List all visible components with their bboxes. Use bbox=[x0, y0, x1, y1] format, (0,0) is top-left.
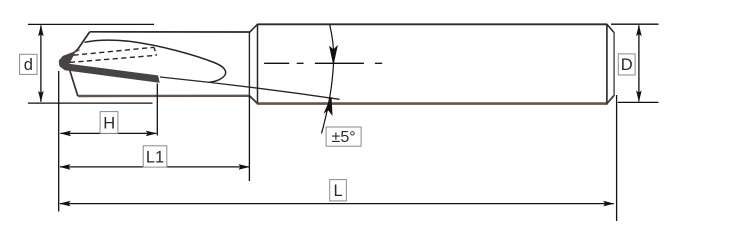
svg-text:L1: L1 bbox=[146, 148, 164, 166]
label ±5° bbox=[326, 127, 361, 146]
dimension L1 line bbox=[59, 164, 250, 170]
H right extension line bbox=[156, 84, 158, 136]
shank left vertical (neck circle) bbox=[257, 24, 259, 105]
angle arrow at center line bbox=[330, 46, 338, 64]
angle arrow at flute line bbox=[324, 97, 332, 115]
shank right end face bbox=[613, 32, 615, 96]
hidden edge dashed wedge upper bbox=[74, 47, 155, 55]
dimension D extension bottom bbox=[618, 101, 659, 103]
svg-text:H: H bbox=[103, 115, 115, 133]
head top edge bbox=[90, 31, 250, 33]
cutting edge (dark chevron) bbox=[59, 50, 159, 82]
head nose lower slant bbox=[70, 70, 78, 97]
dimension d line bbox=[38, 25, 44, 102]
hidden edge dashed wedge lower bbox=[70, 55, 157, 62]
center line bbox=[264, 62, 382, 64]
label D bbox=[618, 54, 635, 75]
shank left top chamfer bbox=[250, 24, 258, 32]
dimension H line bbox=[60, 131, 157, 137]
svg-text:L: L bbox=[334, 182, 343, 200]
flute curve bbox=[85, 40, 226, 82]
L1 right extension line bbox=[248, 96, 250, 181]
dimension d extension bottom bbox=[28, 102, 153, 104]
label H bbox=[100, 112, 118, 134]
dimension d extension top bbox=[28, 23, 154, 25]
label L bbox=[330, 180, 347, 201]
neck shoulder bbox=[248, 32, 250, 96]
svg-text:D: D bbox=[621, 56, 633, 74]
label d bbox=[20, 54, 37, 74]
head bottom edge bbox=[78, 95, 250, 98]
tip extension line (left) bbox=[58, 71, 60, 212]
label L1 bbox=[143, 146, 167, 167]
shank right top chamfer bbox=[607, 24, 614, 32]
svg-text:d: d bbox=[24, 56, 33, 74]
dimension D extension top bbox=[611, 23, 659, 25]
shank left bottom chamfer bbox=[249, 96, 257, 104]
flute taper line bbox=[160, 77, 340, 99]
dimension D line bbox=[636, 25, 642, 102]
L right extension line bbox=[616, 95, 618, 221]
head nose upper slant bbox=[67, 32, 90, 57]
shank bottom edge bbox=[258, 102, 608, 105]
dimension L line bbox=[59, 201, 614, 207]
angle tolerance arc bbox=[322, 25, 334, 134]
svg-text:±5°: ±5° bbox=[332, 129, 356, 146]
shank right vertical (chamfer circle) bbox=[606, 24, 608, 105]
shank right bottom chamfer bbox=[607, 95, 614, 103]
hidden edge dashed wedge right bbox=[154, 47, 157, 55]
shank top edge bbox=[258, 23, 607, 25]
